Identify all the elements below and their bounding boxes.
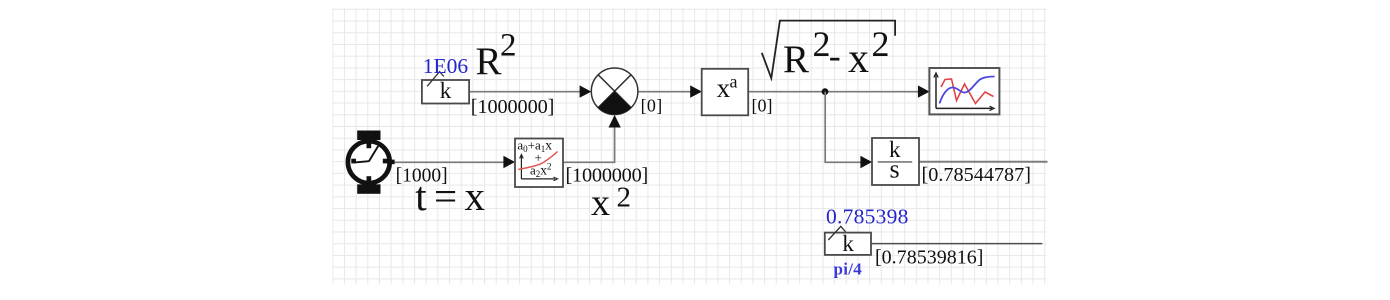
svg-text:R: R [476, 40, 502, 83]
svg-text:x: x [717, 73, 731, 103]
arrowhead into x^a [690, 85, 702, 97]
pointer slash k1 [427, 72, 444, 87]
svg-text:[0]: [0] [752, 96, 773, 116]
svg-text:x: x [848, 36, 869, 82]
svg-text:0.785398: 0.785398 [826, 204, 908, 228]
svg-text:1E06: 1E06 [423, 54, 469, 78]
multiplier block [591, 68, 638, 115]
grid background [332, 8, 1046, 284]
svg-text:2: 2 [872, 24, 890, 64]
arrowhead into plot [918, 85, 930, 97]
svg-text:2: 2 [813, 24, 831, 64]
wire integrator output [919, 161, 1048, 163]
const block k2 (pi/4) [825, 233, 871, 255]
svg-text:2: 2 [617, 182, 632, 214]
svg-text:[1000000]: [1000000] [471, 96, 555, 118]
pointer slash k2 [828, 226, 845, 240]
wire polynomial to multiplier bottom [563, 128, 615, 163]
arrowhead into multiplier bottom [609, 115, 621, 128]
svg-text:t = x: t = x [415, 173, 485, 219]
const block k1 (1E06) [422, 80, 469, 104]
arrowhead into integrator k/s [860, 156, 872, 168]
arrowhead into multiplier left [580, 85, 592, 97]
plot red trace [941, 79, 994, 104]
wire multiplier to x^a [638, 91, 691, 93]
svg-text:[0.78539816]: [0.78539816] [875, 247, 983, 269]
svg-text:a: a [730, 72, 738, 92]
big label sqrt(R^2 - x^2) [762, 21, 895, 79]
poly red curve [518, 152, 557, 170]
arrowhead into polynomial [503, 156, 515, 168]
junction node dot [822, 88, 829, 95]
svg-text:x: x [591, 182, 610, 224]
svg-text:s: s [890, 155, 900, 184]
pow block x^a [702, 69, 749, 116]
svg-text:pi/4: pi/4 [834, 260, 863, 279]
svg-text:2: 2 [500, 28, 517, 64]
svg-text:R: R [783, 38, 809, 81]
integrator block k/s [872, 138, 919, 185]
polynomial block [515, 139, 563, 188]
wire const pi/4 output [871, 243, 1042, 245]
svg-text:[0.78544787]: [0.78544787] [922, 164, 1032, 186]
wire from const k1 to multiplier [469, 91, 580, 93]
plot block [929, 68, 999, 114]
plot axes [935, 75, 937, 108]
wire x^a to plot [748, 91, 918, 93]
poly axes [520, 156, 522, 179]
clock block [357, 131, 380, 141]
svg-text:k: k [842, 231, 854, 256]
svg-text:k: k [440, 78, 452, 103]
wire clock to polynomial [394, 161, 505, 163]
plot blue trace [940, 77, 995, 104]
svg-text:-: - [829, 36, 841, 76]
svg-text:[0]: [0] [641, 96, 663, 116]
wire junction down to integrator [825, 92, 861, 164]
